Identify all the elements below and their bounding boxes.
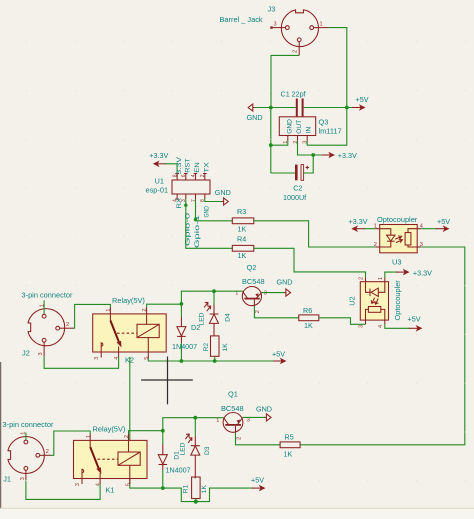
svg-text:IN: IN [306, 126, 313, 133]
svg-text:1K: 1K [222, 343, 229, 352]
U3 LED [380, 229, 391, 247]
svg-text:6: 6 [181, 174, 187, 177]
pin 2 [297, 136, 299, 141]
svg-text:GND: GND [247, 113, 263, 122]
U2 pin4 (bottom-right) [384, 320, 386, 324]
svg-text:+5V: +5V [251, 476, 264, 485]
node junction at Q3 GND [269, 143, 273, 147]
resistor R3 [232, 207, 254, 234]
J1 pin 2 [40, 454, 51, 456]
module U1 esp-01 [146, 156, 211, 248]
LED D4 [198, 291, 231, 336]
svg-text:Q3: Q3 [319, 118, 329, 127]
ground symbol GND (at U1) [215, 188, 231, 205]
svg-text:Relay(5V): Relay(5V) [93, 425, 126, 434]
svg-text:1N4007: 1N4007 [166, 466, 191, 475]
power +3.3V (U3 pin1) [349, 217, 376, 232]
svg-text:+5V: +5V [356, 95, 369, 104]
wire U1 GND to ground [205, 199, 223, 202]
svg-text:lm1117: lm1117 [319, 127, 342, 136]
K2 coil [137, 324, 159, 337]
wire U3 pin3 to Q1 base rail (right edge) [300, 247, 465, 445]
K2 pin 1 [109, 307, 111, 314]
vertical wire x=271 from rail to C2 [270, 108, 272, 174]
K1 contact [82, 469, 84, 479]
wire Q1 collector to K1/D1 node [163, 418, 224, 431]
wire Gpio-1 to R3 [196, 199, 233, 221]
svg-text:+3.3V: +3.3V [338, 151, 357, 160]
svg-text:K1: K1 [106, 486, 115, 495]
svg-text:3: 3 [247, 418, 250, 424]
svg-text:+3.3V: +3.3V [349, 217, 368, 226]
U2 pin1 (top-right) [384, 278, 386, 282]
wire C1 to +5V junction [304, 107, 353, 109]
svg-text:3: 3 [359, 325, 365, 328]
LED D3 [179, 418, 211, 479]
diode D2 1N4007 [172, 304, 200, 361]
svg-text:LED: LED [179, 442, 186, 455]
svg-text:1: 1 [39, 304, 45, 307]
svg-text:3: 3 [94, 357, 100, 360]
svg-text:5: 5 [125, 483, 131, 486]
svg-text:GND: GND [215, 188, 231, 197]
svg-text:BC548: BC548 [221, 404, 244, 413]
U1 pin RX (bottom) [175, 194, 179, 199]
U2 pin2 (top-left) [365, 278, 367, 282]
svg-text:1: 1 [378, 277, 384, 280]
wire K1 pin2 to D1 node [129, 431, 163, 434]
svg-text:J2: J2 [22, 349, 30, 358]
grid dots [26, 41, 466, 481]
svg-text:Relay(5V): Relay(5V) [112, 296, 145, 305]
resistor R6 [299, 306, 319, 330]
window bottom band [0, 509, 474, 519]
U1 pin 3.3V (top) [175, 174, 179, 181]
J2 pin 1 [43, 300, 45, 314]
svg-text:LED: LED [198, 312, 205, 325]
svg-text:GND: GND [256, 405, 272, 414]
svg-text:1K: 1K [304, 321, 313, 330]
wire Q1 emitter to ground [243, 416, 266, 418]
node dot D3 top [193, 416, 197, 420]
K1 coil [118, 452, 140, 465]
svg-text:U2: U2 [348, 296, 357, 305]
power +5V (top) [352, 95, 369, 111]
wire Q3 GND pin to left vertical [271, 141, 288, 145]
transistor Q2 BC548 [235, 263, 267, 313]
svg-text:2: 2 [142, 308, 148, 311]
svg-text:Q1: Q1 [228, 390, 238, 399]
relay K2 Relay(5V) [93, 296, 167, 365]
svg-text:D3: D3 [204, 446, 211, 455]
svg-text:1K: 1K [238, 225, 247, 234]
graphic cross [141, 357, 193, 405]
svg-text:R1: R1 [182, 484, 189, 493]
K2 pin 5 [147, 352, 149, 358]
svg-text:4: 4 [172, 199, 178, 202]
wire J2 pin3 to K2 pin4 [44, 356, 119, 368]
K1 pin 2 [128, 433, 130, 440]
node dot Gpio-1 [194, 218, 197, 221]
power +5V (K2 rail) [272, 350, 287, 365]
node dot Gpio-0 [184, 204, 187, 207]
node dot D4 top [212, 289, 216, 293]
svg-text:2: 2 [292, 50, 298, 53]
svg-text:3-pin connector: 3-pin connector [22, 291, 73, 300]
svg-text:R3: R3 [237, 207, 246, 216]
svg-text:U3: U3 [392, 258, 401, 267]
U1 pin TX (top) [203, 174, 207, 181]
svg-text:Q2: Q2 [247, 263, 257, 272]
svg-text:Optocoupler: Optocoupler [393, 280, 402, 321]
svg-text:5: 5 [144, 357, 150, 360]
wire +3.3V to U1 pin [165, 164, 177, 177]
svg-text:2: 2 [374, 242, 377, 248]
U1 pin GND (bottom) [204, 194, 206, 199]
wire R4 to U2 pin2 [254, 248, 366, 277]
node junction OUT/C2 [311, 153, 315, 157]
wire R6 to U2 pin3 [319, 318, 366, 325]
svg-text:4: 4 [378, 325, 384, 328]
svg-text:1: 1 [21, 432, 27, 435]
ground symbol GND (top left) [247, 104, 263, 122]
wire K2 pin2 to D2 node [147, 304, 182, 307]
J1 pin 3 [25, 470, 27, 480]
K2 dashed link [117, 332, 137, 334]
svg-text:J3: J3 [268, 5, 276, 14]
wire Q3 IN pin to +5V vertical [307, 108, 347, 146]
J2 pin 3 [43, 342, 45, 356]
wire J1 pin3 to K1 pin4 [26, 480, 100, 500]
capacitor C1 22pf [281, 90, 306, 117]
svg-text:C2: C2 [293, 184, 302, 193]
regulator Q3 lm1117 [279, 117, 341, 144]
svg-text:Barrel _ Jack: Barrel _ Jack [220, 15, 263, 24]
ground symbol GND (at Q1) [256, 405, 272, 422]
K2 pin 3 [100, 352, 102, 358]
U2 pin3 (bottom-left) [365, 320, 367, 324]
svg-text:TX: TX [204, 162, 211, 173]
U3 photo resistor [408, 229, 417, 247]
svg-text:4: 4 [114, 357, 120, 360]
svg-text:1: 1 [320, 22, 323, 28]
svg-text:R2: R2 [203, 343, 210, 352]
svg-text:+5V: +5V [408, 314, 421, 323]
node junction right of C1 [345, 106, 349, 110]
svg-text:1K: 1K [201, 485, 208, 494]
power +5V (U2 pin4) [385, 314, 423, 331]
svg-text:2: 2 [255, 310, 261, 313]
U2 LED [366, 282, 385, 293]
svg-text:EN: EN [194, 162, 201, 173]
+5V rail (K1 section) with jog under R1 [130, 357, 253, 502]
svg-text:D4: D4 [225, 313, 232, 322]
wire C2 left [271, 172, 295, 174]
svg-text:2: 2 [46, 449, 49, 455]
diode D1 1N4007 [158, 431, 190, 488]
svg-text:1: 1 [86, 435, 92, 438]
svg-text:+5V: +5V [437, 217, 450, 226]
svg-text:8: 8 [172, 174, 178, 177]
J1 pin 1 [25, 433, 27, 441]
optocoupler U3 [374, 215, 423, 267]
power +3.3V (U2 pin1) [385, 269, 432, 278]
wire C2 right [304, 155, 314, 173]
J2 pin 2 [60, 327, 73, 329]
wire Gpio-0 down to R4 [186, 199, 233, 248]
svg-text:3.3V: 3.3V [176, 156, 183, 175]
resistor R1 [182, 477, 208, 502]
pin 1 [287, 136, 289, 141]
resistor R2 [203, 336, 229, 361]
svg-text:4: 4 [96, 483, 102, 486]
J3 pin 3 [272, 27, 286, 29]
svg-text:1000Uf: 1000Uf [283, 193, 306, 202]
svg-text:1K: 1K [284, 449, 293, 458]
svg-text:3-pin connector: 3-pin connector [3, 420, 54, 429]
U3 pin2 [376, 246, 380, 248]
connector J2 (3-pin) [22, 291, 74, 358]
svg-text:1: 1 [106, 308, 112, 311]
U2 light arrows [371, 298, 375, 304]
svg-text:Optocoupler: Optocoupler [377, 215, 418, 224]
wire Q2 collector to K2/D2 node [181, 291, 242, 304]
power +5V (U3 pin4) [421, 217, 450, 232]
svg-text:C1 22pf: C1 22pf [281, 90, 306, 99]
wire J1 pin2 to K1 pin1 [51, 431, 91, 455]
U1 pin RST (top) [184, 174, 188, 181]
optocoupler U2 [348, 277, 403, 328]
svg-text:GND: GND [286, 119, 293, 134]
svg-text:RST: RST [185, 158, 192, 173]
+5V rail (K2 section) [148, 357, 274, 362]
K1 pin 3 [81, 479, 83, 485]
relay K1 Relay(5V) [74, 425, 148, 495]
svg-text:3: 3 [274, 22, 277, 28]
svg-text:+3.3V: +3.3V [149, 151, 168, 160]
svg-text:1K: 1K [238, 251, 247, 260]
resistor R5 [280, 433, 300, 459]
svg-text:4: 4 [191, 174, 197, 177]
svg-text:2: 2 [200, 174, 206, 177]
pin 3 [306, 136, 308, 141]
svg-text:2: 2 [124, 435, 130, 438]
svg-text:3: 3 [264, 291, 267, 297]
U3 pin3 [417, 246, 421, 248]
power +3.3V (at U1) [149, 151, 168, 167]
resistor R4 [232, 235, 254, 260]
U3 pin4 [417, 228, 421, 230]
U2 photo resistor [366, 309, 385, 320]
wire R3 to U3 pin2 [254, 221, 376, 247]
svg-text:2: 2 [359, 277, 365, 280]
svg-text:R4: R4 [237, 235, 246, 244]
svg-text:esp-01: esp-01 [146, 186, 169, 195]
wire GND to C1 [255, 107, 296, 109]
node dot D2 top / K2 pin2 [180, 302, 184, 306]
ground symbol GND (at Q2) [277, 278, 293, 297]
wire Q3 OUT pin down [298, 141, 323, 155]
power +5V (K1 rail) [251, 476, 266, 492]
K1 dashed link [98, 458, 119, 460]
U3 pin1 [376, 228, 380, 230]
K2 contact [101, 342, 103, 352]
power +3.3V (at Q3) [322, 151, 357, 160]
svg-text:3: 3 [20, 477, 26, 480]
svg-text:2: 2 [236, 437, 242, 440]
svg-text:GND: GND [277, 278, 293, 287]
U1 pin Gpio-0 (bottom) [185, 194, 187, 199]
svg-text:1: 1 [216, 418, 219, 424]
svg-text:2: 2 [66, 322, 69, 328]
connector J3 (Barrel Jack) [220, 5, 329, 56]
svg-text:+3.3V: +3.3V [413, 269, 432, 278]
wire Q2 base to R6 [254, 306, 298, 318]
svg-text:BC548: BC548 [242, 277, 265, 286]
svg-text:R6: R6 [303, 306, 312, 315]
node junction left of C1 [269, 106, 273, 110]
K2 switch arm [109, 314, 111, 321]
J3 pin 1 [314, 27, 329, 29]
svg-text:J1: J1 [3, 475, 11, 484]
svg-text:1N4007: 1N4007 [172, 342, 197, 351]
wire J3 pin2 down-left [271, 55, 299, 107]
J3 pin 2 [298, 42, 300, 56]
K2 pin 4 [118, 352, 120, 358]
capacitor C2 1000Uf [283, 165, 309, 202]
K1 switch arm [89, 440, 91, 447]
window bottom edge [0, 507, 474, 509]
svg-text:3: 3 [75, 483, 81, 486]
K2 pin 2 [146, 307, 148, 314]
svg-text:3: 3 [38, 352, 44, 355]
U3 light arrows [396, 236, 402, 239]
transistor Q1 BC548 [216, 390, 250, 440]
K1 pin 4 [99, 479, 101, 485]
window left edge [0, 362, 2, 513]
node dot D1 top / K1 pin2 [161, 429, 165, 433]
wire Q2 emitter to ground [262, 292, 285, 294]
K1 pin 1 [89, 433, 91, 440]
svg-text:OUT: OUT [296, 120, 303, 134]
wire Q1 base to R5 [236, 433, 281, 445]
wire J3 pin1 to +5V rail [329, 28, 347, 108]
U1 pin Gpio-1 (bottom) [195, 194, 197, 199]
svg-text:U1: U1 [155, 177, 164, 186]
K1 pin 5 [129, 479, 131, 485]
svg-text:R5: R5 [285, 433, 294, 442]
U1 pin EN (top) [194, 174, 198, 181]
wire J2 pin2 to K2 pin1 [73, 304, 110, 328]
connector J1 (3-pin) [3, 420, 54, 484]
svg-text:GND: GND [204, 206, 211, 218]
svg-text:+5V: +5V [272, 350, 285, 359]
